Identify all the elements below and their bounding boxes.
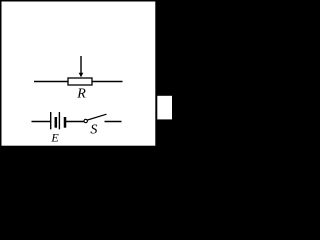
switch S blade xyxy=(88,114,107,120)
svg-text:S: S xyxy=(90,122,97,137)
svg-text:R: R xyxy=(76,87,86,102)
wire battery left lead xyxy=(32,121,51,123)
wire top-right segment xyxy=(92,81,123,83)
wire switch right lead xyxy=(105,121,122,123)
wire battery to switch xyxy=(66,121,84,123)
wire top-left segment xyxy=(34,81,69,83)
battery E cell 2 short plate xyxy=(64,117,67,128)
battery E cell 1 short plate xyxy=(55,117,58,128)
switch S pivot contact xyxy=(84,119,87,122)
svg-text:E: E xyxy=(50,131,59,145)
battery E cell 2 long plate xyxy=(58,112,60,129)
battery E cell 1 long plate xyxy=(50,112,52,129)
rheostat wiper arrow xyxy=(79,56,84,77)
resistor R body (rheostat box) xyxy=(68,78,92,85)
